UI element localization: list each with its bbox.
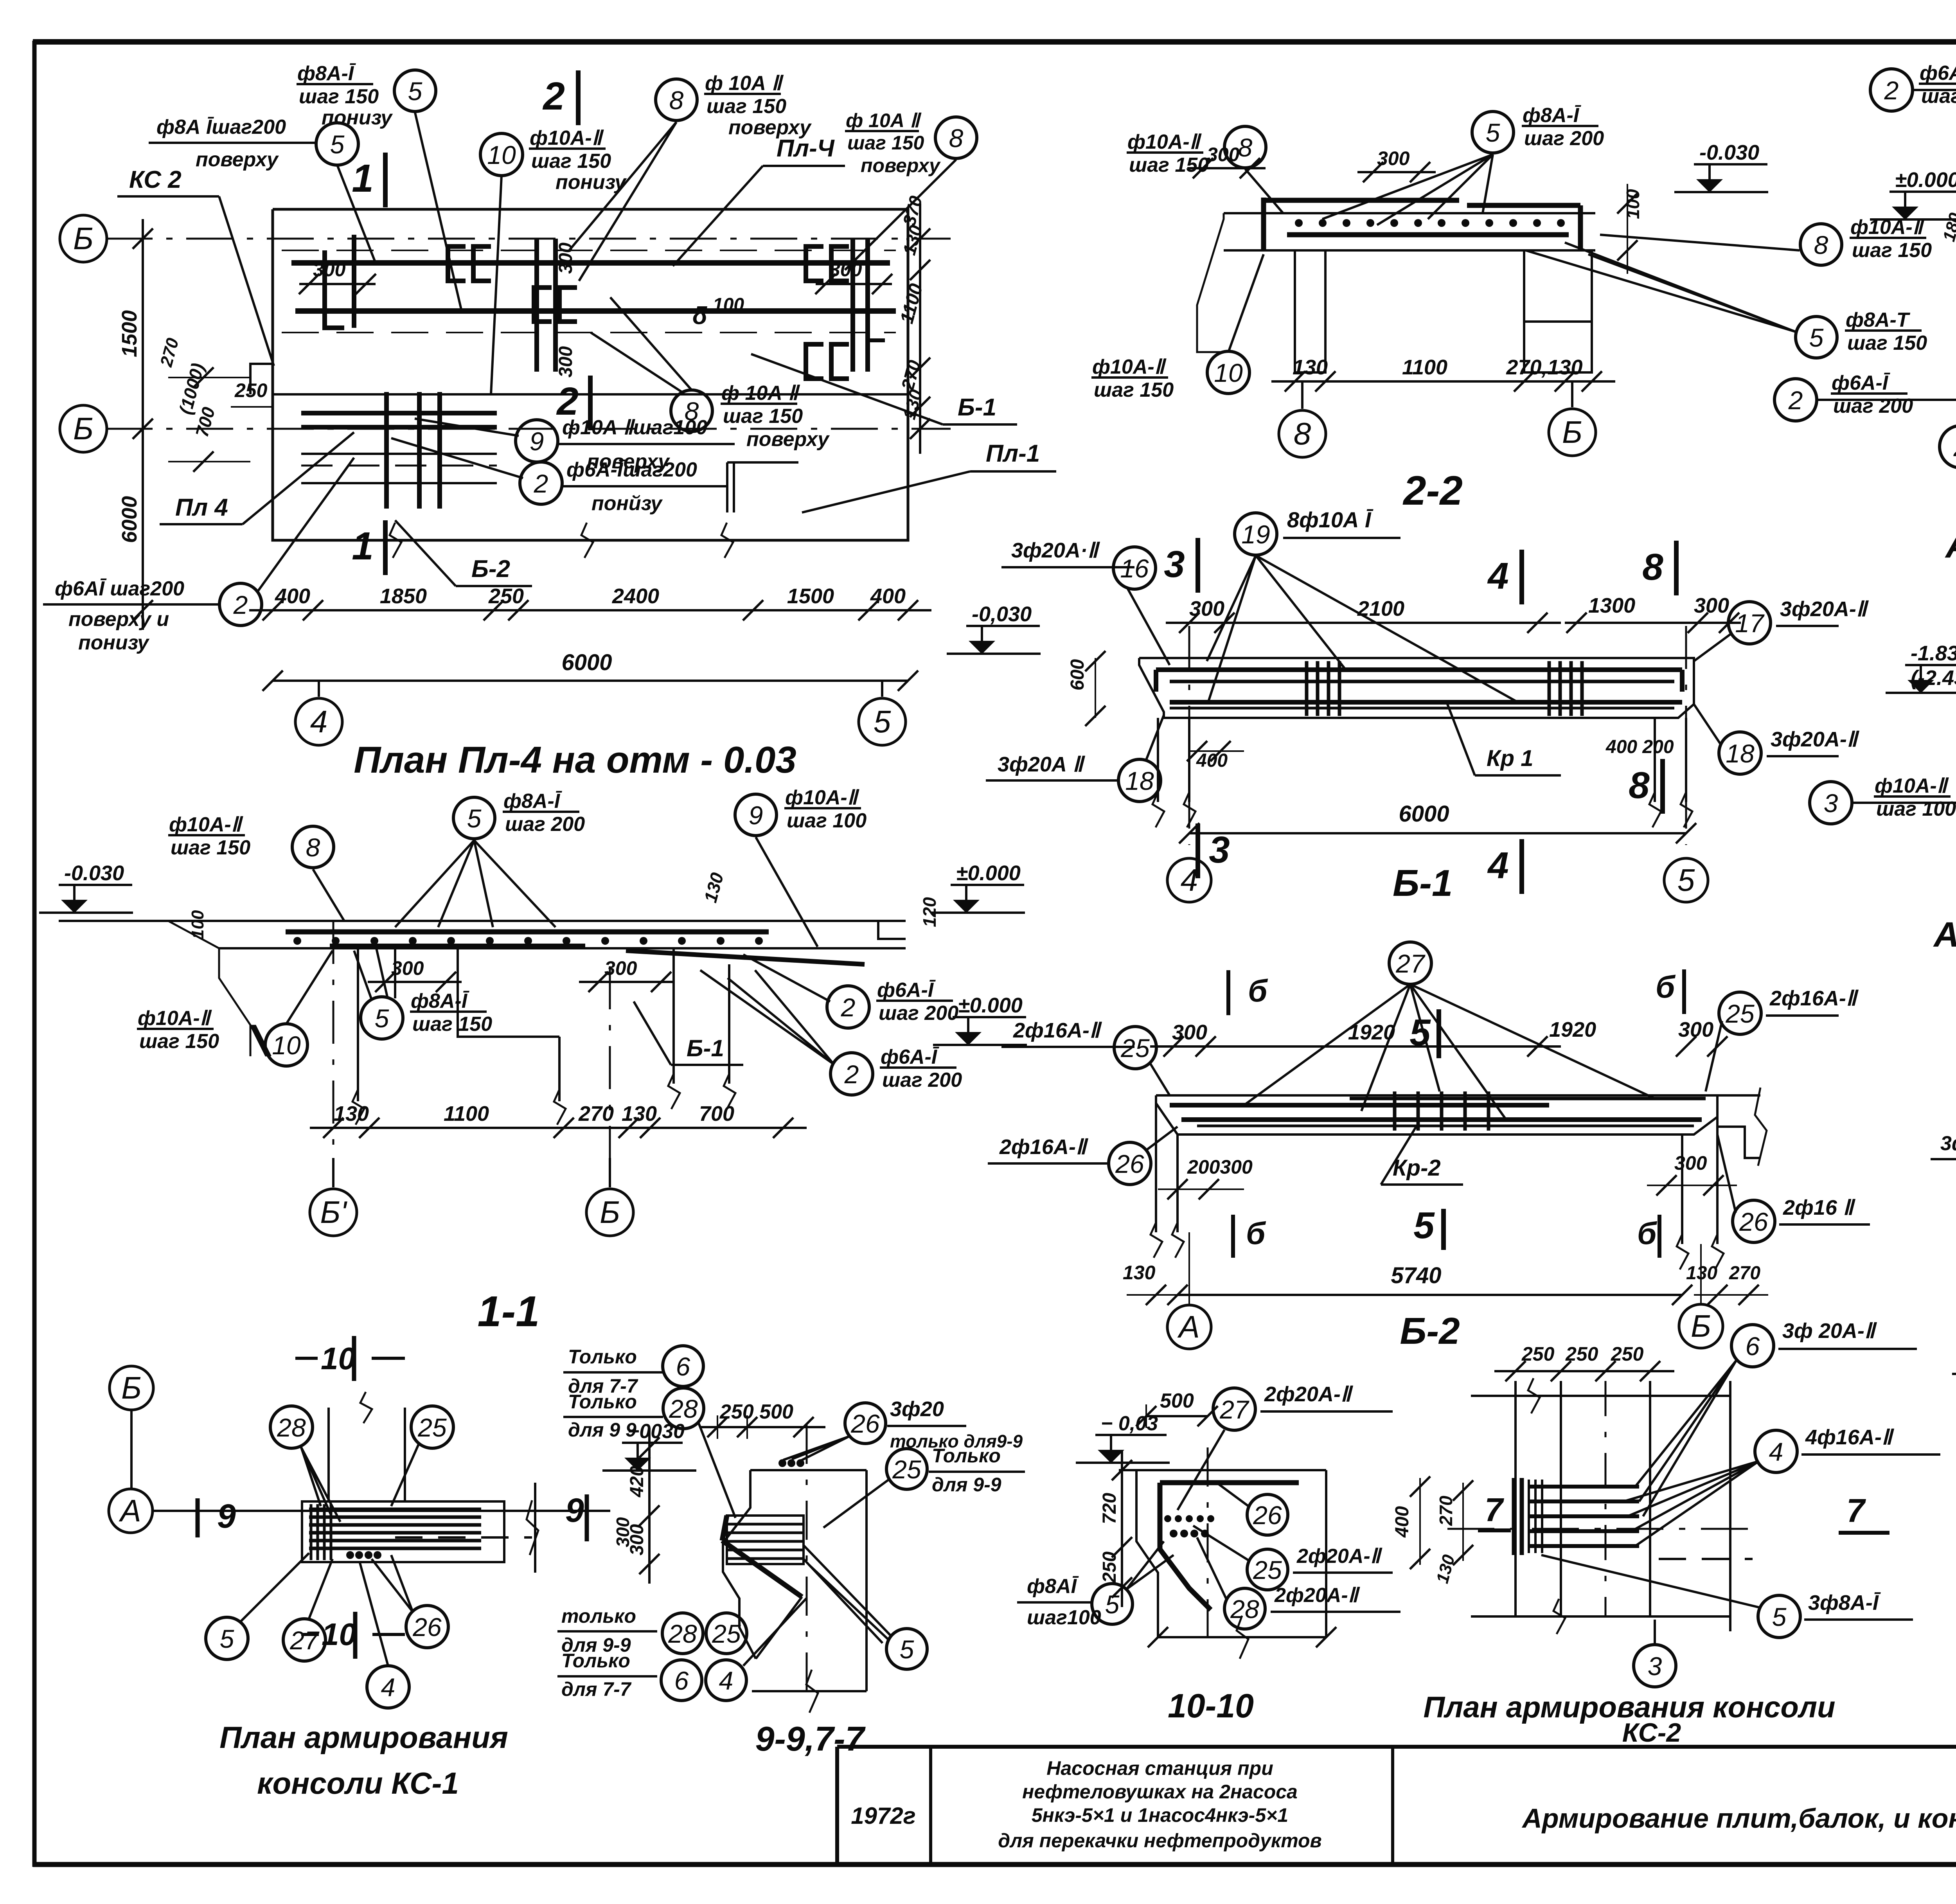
svg-text:28: 28 <box>669 1394 698 1423</box>
KC-1 console left hatch verticals <box>310 1504 313 1560</box>
svg-text:Б: Б <box>1562 415 1582 449</box>
svg-text:26: 26 <box>1115 1149 1144 1178</box>
svg-text:Б': Б' <box>320 1195 347 1230</box>
callout 8 <box>671 390 712 432</box>
svg-text:Пл 4: Пл 4 <box>175 494 228 521</box>
svg-text:3: 3 <box>1209 829 1230 871</box>
svg-text:Пл-Ч: Пл-Ч <box>777 135 835 162</box>
svg-text:400 200: 400 200 <box>1605 737 1674 757</box>
9-9 7-7 diagonal leaders bundle <box>756 1597 802 1659</box>
level mark ±0.000 <box>1889 191 1956 193</box>
section 2-2 left web <box>1295 250 1325 372</box>
svg-text:25: 25 <box>1120 1034 1150 1063</box>
svg-text:δ: δ <box>692 302 707 329</box>
callout 4 <box>706 1660 746 1701</box>
svg-text:б: б <box>1248 973 1268 1008</box>
svg-text:шаг 150: шаг 150 <box>171 836 250 859</box>
section 1-1 slab left support slope <box>168 921 250 1056</box>
callout 5 <box>886 1629 927 1669</box>
svg-text:1-1: 1-1 <box>478 1287 540 1336</box>
svg-text:270: 270 <box>1729 1263 1760 1284</box>
svg-text:б: б <box>1637 1216 1658 1251</box>
svg-text:250: 250 <box>1611 1343 1644 1365</box>
svg-text:А: А <box>1177 1309 1199 1344</box>
section 2-2 top heavy bar right part <box>1467 203 1580 208</box>
callout 3 <box>1810 782 1852 824</box>
svg-text:250: 250 <box>1521 1343 1555 1365</box>
svg-text:для перекачки нефтепродуктов: для перекачки нефтепродуктов <box>998 1830 1322 1852</box>
section mark 2 <box>588 376 593 430</box>
svg-text:27: 27 <box>289 1626 320 1655</box>
svg-text:4: 4 <box>1769 1437 1783 1466</box>
svg-text:1850: 1850 <box>380 584 427 608</box>
beam B-2 left leg <box>1176 1134 1179 1232</box>
svg-text:5: 5 <box>467 804 482 833</box>
svg-text:25: 25 <box>1253 1555 1282 1584</box>
level mark -0,030 <box>966 625 1040 627</box>
callout 18 <box>1719 732 1761 774</box>
svg-text:только: только <box>561 1605 636 1627</box>
callout 26 <box>1109 1142 1151 1185</box>
svg-text:2: 2 <box>1788 386 1803 415</box>
section 1-1 bottom heavy bar <box>330 944 585 948</box>
dimension chain <box>1166 622 1561 624</box>
svg-text:6: 6 <box>674 1666 689 1695</box>
KC-1 console outline <box>302 1501 504 1562</box>
rebar top band bar 1 <box>291 260 890 266</box>
callout 25 <box>411 1406 453 1448</box>
page frame top border <box>33 39 1956 45</box>
section 1-1 left small hatch area <box>250 1025 266 1056</box>
svg-text:Только: Только <box>568 1391 637 1413</box>
section 1-1 axis dashed verticals <box>333 921 334 1178</box>
left vertical rebar with hook <box>325 250 344 328</box>
beam B-2 section mark b top-left <box>1226 970 1230 1015</box>
callout 6 <box>661 1660 702 1701</box>
svg-text:25: 25 <box>712 1619 741 1648</box>
KC-1 console inner heavy bars <box>309 1508 481 1511</box>
callout 10 <box>480 133 523 176</box>
svg-text:3ф20А·Ⅱ: 3ф20А·Ⅱ <box>1011 539 1100 562</box>
svg-text:8: 8 <box>1814 230 1828 259</box>
callout 5 <box>1758 1595 1800 1638</box>
callout 17 <box>1728 602 1771 644</box>
svg-text:ф6АĪ шаг200: ф6АĪ шаг200 <box>55 577 184 600</box>
svg-text:ф 10А Ⅱ: ф 10А Ⅱ <box>705 72 784 95</box>
rebar top band bar 2 <box>295 308 896 314</box>
svg-text:Б-1: Б-1 <box>958 394 996 421</box>
svg-text:26: 26 <box>1253 1501 1282 1530</box>
svg-text:шаг 150: шаг 150 <box>531 150 611 173</box>
callout 28 <box>1224 1588 1265 1629</box>
10-10 Г-shaped heavy bar <box>1160 1480 1299 1485</box>
KC-1 dots under console <box>346 1551 354 1559</box>
vertical dimension chain <box>1121 1451 1123 1607</box>
svg-text:шаг 150: шаг 150 <box>412 1013 492 1036</box>
svg-text:6: 6 <box>1746 1332 1760 1361</box>
svg-text:28: 28 <box>668 1619 697 1648</box>
svg-text:9: 9 <box>749 801 763 830</box>
svg-text:5: 5 <box>1677 863 1695 897</box>
svg-text:поверху: поверху <box>746 428 830 451</box>
svg-text:100: 100 <box>713 295 744 315</box>
KC-1 axis horizontal line <box>153 1510 610 1512</box>
beam B-2 section mark b bottom-right <box>1658 1215 1661 1258</box>
9-9 7-7 console slope thick <box>722 1541 802 1597</box>
svg-text:500: 500 <box>1160 1390 1194 1412</box>
svg-text:300: 300 <box>613 1517 633 1547</box>
svg-text:600: 600 <box>1067 659 1088 690</box>
beam B-1 top second bar <box>1170 680 1674 683</box>
right vertical rebar pair <box>850 239 855 372</box>
section 2-2 slab outline left slope <box>1197 213 1224 352</box>
plan Pl-4 left notch (KC2 console) <box>250 364 273 394</box>
9-9 7-7 left wall outline <box>723 1470 756 1659</box>
10-10 dots cluster <box>1164 1515 1171 1522</box>
svg-text:400: 400 <box>1196 750 1228 771</box>
svg-text:4: 4 <box>381 1673 396 1702</box>
axis 4 <box>295 698 342 745</box>
section 2-2 slab bottom edge <box>1224 249 1595 252</box>
level mark -0.030 <box>59 884 132 886</box>
svg-text:130: 130 <box>622 1102 657 1125</box>
svg-text:25: 25 <box>417 1413 447 1442</box>
svg-text:4: 4 <box>1181 863 1198 897</box>
svg-text:300: 300 <box>1189 597 1224 620</box>
callout 18 <box>1118 759 1161 802</box>
callout 5 <box>1472 111 1514 153</box>
svg-text:2ф16А-Ⅱ: 2ф16А-Ⅱ <box>999 1135 1089 1159</box>
svg-text:2ф20А-Ⅱ: 2ф20А-Ⅱ <box>1274 1584 1361 1607</box>
svg-text:Пл-1: Пл-1 <box>986 440 1040 467</box>
svg-text:300: 300 <box>1172 1021 1207 1044</box>
rebar hooks pair 3 right <box>806 246 823 281</box>
svg-text:18: 18 <box>1125 766 1154 795</box>
callout 28 <box>663 1388 704 1429</box>
beam B-2 section mark 5 top <box>1436 1009 1441 1058</box>
svg-text:шаг 150: шаг 150 <box>1129 154 1209 176</box>
callout 2 <box>1940 426 1956 468</box>
svg-text:3ф 20А-Ⅱ: 3ф 20А-Ⅱ <box>1782 1319 1877 1343</box>
10-10 right vertical line <box>1325 1470 1327 1637</box>
lower-left band thin lines <box>301 453 497 455</box>
svg-text:130: 130 <box>1686 1263 1717 1284</box>
callout 5 <box>316 123 358 165</box>
svg-text:130: 130 <box>1293 356 1328 379</box>
svg-text:250: 250 <box>234 379 268 401</box>
axis Б <box>1549 409 1596 456</box>
svg-text:поверху: поверху <box>196 148 279 171</box>
KC-2 console heavy bars <box>1528 1485 1639 1489</box>
page frame left border <box>32 41 37 1867</box>
callout 27 <box>283 1619 325 1661</box>
svg-text:-0,030: -0,030 <box>972 602 1032 626</box>
svg-text:10: 10 <box>1214 358 1243 387</box>
svg-text:3ф20: 3ф20 <box>890 1397 944 1421</box>
svg-text:понизу: понизу <box>556 171 627 194</box>
callout 25 <box>1114 1027 1156 1069</box>
section mark 4 <box>1519 839 1524 894</box>
svg-text:3ф20АⅡ: 3ф20АⅡ <box>1940 1132 1956 1155</box>
KC-1 section mark 10 top <box>352 1336 356 1381</box>
svg-text:300: 300 <box>1694 594 1729 617</box>
svg-text:26: 26 <box>850 1409 880 1438</box>
svg-text:Только: Только <box>561 1650 630 1672</box>
svg-text:±0.000: ±0.000 <box>1895 168 1956 192</box>
svg-text:3: 3 <box>1824 789 1838 818</box>
svg-text:3ф20А-Ⅱ: 3ф20А-Ⅱ <box>1780 597 1869 621</box>
KC-1 right break <box>527 1500 538 1555</box>
svg-text:Кр 1: Кр 1 <box>1487 746 1533 771</box>
callout 10 <box>265 1024 307 1066</box>
section 1-1 slab bottom edge <box>219 947 906 949</box>
svg-text:шаг 150: шаг 150 <box>723 405 803 428</box>
svg-text:1100: 1100 <box>444 1102 489 1125</box>
beam B-2 dim 5740 <box>1178 1294 1682 1296</box>
svg-text:±0.000: ±0.000 <box>958 994 1023 1017</box>
svg-text:Б-2: Б-2 <box>471 556 510 583</box>
9-9 7-7 top dims 250 500 <box>700 1426 825 1428</box>
svg-text:8: 8 <box>306 833 320 862</box>
svg-text:19: 19 <box>1241 520 1270 549</box>
section 2-2 dim 300 right <box>1357 171 1436 173</box>
section 2-2 slab bottom heavy bar <box>1287 232 1569 237</box>
KC-2 grid horizontal bottom <box>1471 1615 1729 1618</box>
level mark − 0,03 <box>1095 1434 1167 1436</box>
svg-text:25: 25 <box>1725 999 1755 1028</box>
svg-text:шаг 200: шаг 200 <box>1833 395 1913 417</box>
axis line B lower dashed <box>106 428 951 430</box>
svg-text:3: 3 <box>1648 1652 1662 1681</box>
svg-text:5: 5 <box>1105 1590 1120 1619</box>
callout 4 <box>367 1666 409 1708</box>
callout 2 <box>1774 379 1817 421</box>
svg-text:шаг 150: шаг 150 <box>847 132 924 154</box>
svg-text:100: 100 <box>188 910 207 939</box>
svg-text:5740: 5740 <box>1391 1263 1441 1288</box>
axis Б <box>60 215 107 262</box>
svg-text:б: б <box>1656 969 1676 1004</box>
svg-text:ф10А-Ⅱ: ф10А-Ⅱ <box>785 786 860 809</box>
svg-text:понизу: понизу <box>78 631 150 654</box>
svg-text:8ф10А Ī: 8ф10А Ī <box>1287 507 1374 532</box>
svg-text:б: б <box>1246 1216 1266 1251</box>
beam B-1 top heavy bar <box>1156 667 1682 672</box>
10-10 top horizontal line <box>1119 1469 1326 1471</box>
svg-text:Б: Б <box>73 411 93 446</box>
svg-text:9-9,7-7: 9-9,7-7 <box>755 1719 866 1758</box>
svg-text:400: 400 <box>1392 1506 1413 1538</box>
beam B-1 left hook <box>1154 670 1158 692</box>
svg-text:шаг 150: шаг 150 <box>1094 379 1174 401</box>
svg-text:Только: Только <box>932 1445 1001 1467</box>
svg-text:10-10: 10-10 <box>1168 1687 1254 1725</box>
beam B-1 6000 dim <box>1189 832 1686 834</box>
svg-text:27: 27 <box>1395 949 1426 978</box>
svg-text:3: 3 <box>1164 543 1185 585</box>
svg-text:2ф16 Ⅱ: 2ф16 Ⅱ <box>1783 1196 1856 1219</box>
callout 25 <box>886 1449 927 1489</box>
beam B-2 right slab stub <box>1717 1094 1760 1097</box>
svg-text:для 7-7: для 7-7 <box>561 1678 632 1700</box>
svg-text:5: 5 <box>1486 118 1500 147</box>
svg-text:8: 8 <box>1238 133 1253 162</box>
callout 9 <box>516 420 558 462</box>
svg-text:130: 130 <box>334 1102 369 1125</box>
svg-text:2400: 2400 <box>612 584 659 608</box>
svg-text:Армирование Пл-1, Пл-2: Армирование Пл-1, Пл-2 <box>1945 525 1956 565</box>
callout 2 <box>219 583 262 626</box>
10-10 dim 500 top <box>1146 1415 1208 1417</box>
callout 10 <box>1207 351 1249 394</box>
axis 5 <box>1664 858 1708 902</box>
callout 8 <box>1224 126 1266 168</box>
10-10 vertical dashed center <box>1207 1447 1209 1637</box>
svg-text:шаг 200: шаг 200 <box>879 1002 958 1025</box>
level mark -0.030 <box>1694 163 1767 165</box>
svg-text:ф8АĪ: ф8АĪ <box>1027 1575 1079 1598</box>
9-9 7-7 top dots <box>778 1459 786 1467</box>
svg-text:А: А <box>119 1493 141 1528</box>
callout 26 <box>406 1606 448 1648</box>
svg-text:1500: 1500 <box>787 584 834 608</box>
svg-text:для 9-9: для 9-9 <box>932 1474 1001 1496</box>
svg-text:понйзу: понйзу <box>591 492 663 515</box>
section 2-2 dim 300 left <box>1187 167 1266 169</box>
svg-text:поверху: поверху <box>728 116 812 139</box>
KC-2 dashed right continuation <box>1659 1558 1753 1560</box>
svg-text:2ф16А-Ⅱ: 2ф16А-Ⅱ <box>1769 987 1859 1010</box>
callout 26 <box>845 1403 886 1444</box>
svg-text:300: 300 <box>1377 147 1410 169</box>
svg-text:Б: Б <box>1691 1309 1711 1343</box>
callout 8 <box>1800 224 1842 265</box>
svg-text:2ф16А-Ⅱ: 2ф16А-Ⅱ <box>1013 1019 1102 1042</box>
svg-text:28: 28 <box>1230 1595 1259 1624</box>
level mark ±0.000 <box>953 1016 1026 1018</box>
callout 28 <box>270 1406 313 1448</box>
svg-text:4: 4 <box>1487 555 1508 597</box>
svg-text:6000: 6000 <box>118 496 141 543</box>
beam B-1 left support legs <box>1157 718 1159 802</box>
svg-text:18: 18 <box>1726 739 1755 768</box>
beam B-2 section mark b bottom-left <box>1231 1215 1235 1258</box>
10-10 left outline <box>1136 1470 1158 1637</box>
beam B-1 body outline <box>1139 658 1694 661</box>
svg-text:8: 8 <box>1642 546 1663 588</box>
svg-text:9: 9 <box>530 427 544 456</box>
svg-text:шаг 200: шаг 200 <box>1524 127 1604 150</box>
beam B-2 top heavy bar right part <box>1350 1097 1706 1100</box>
callout 27 <box>1389 942 1431 984</box>
svg-text:Армирование плит,балок, и конс: Армирование плит,балок, и консолей <box>1521 1803 1956 1834</box>
svg-text:10: 10 <box>322 1617 356 1652</box>
KC-2 grid vertical right <box>1729 1381 1731 1631</box>
callout 8 <box>292 826 334 868</box>
300 dim top-left of plan <box>299 283 376 285</box>
svg-text:26: 26 <box>412 1613 442 1642</box>
svg-text:ф10А-Ⅱ: ф10А-Ⅱ <box>1127 131 1202 153</box>
beam B-1 stirrup group mid-left <box>1305 661 1309 716</box>
svg-text:шаг 150: шаг 150 <box>1852 239 1932 262</box>
svg-text:1300: 1300 <box>1588 594 1635 617</box>
svg-text:5: 5 <box>900 1635 914 1664</box>
svg-text:ф8А-Т: ф8А-Т <box>1846 309 1911 331</box>
svg-text:-0.030: -0.030 <box>64 861 124 885</box>
svg-text:2: 2 <box>844 1060 859 1089</box>
svg-text:3ф8А-Ī: 3ф8А-Ī <box>1808 1591 1881 1615</box>
plan Pl-4 outline <box>273 209 908 540</box>
plan Pl-4 mid horizontal edge <box>273 393 908 396</box>
svg-text:ф8А-Ī: ф8А-Ī <box>411 990 470 1012</box>
callout 19 <box>1235 513 1277 555</box>
svg-text:поверху и: поверху и <box>68 608 169 631</box>
callout 8 <box>656 79 697 120</box>
title block outline <box>837 1745 1956 1749</box>
svg-text:− 0,03: − 0,03 <box>1101 1412 1158 1435</box>
vertical dimension chain <box>648 1428 651 1584</box>
lower-left band rebar bars <box>301 411 497 415</box>
rebar hooks pair 1 <box>448 246 466 281</box>
svg-text:поверху: поверху <box>861 155 941 176</box>
rebar hooks pair 2 <box>534 288 552 322</box>
svg-text:ф 10А Ⅱ: ф 10А Ⅱ <box>846 110 922 131</box>
vertical dimension chain <box>142 219 144 630</box>
svg-text:8: 8 <box>949 124 964 153</box>
svg-text:ф8А-Ī: ф8А-Ī <box>1523 104 1582 127</box>
svg-text:6: 6 <box>676 1352 690 1381</box>
svg-text:1920: 1920 <box>1549 1018 1596 1041</box>
svg-text:ф10А-Ⅱ: ф10А-Ⅱ <box>530 127 604 149</box>
svg-text:-0.030: -0.030 <box>1699 141 1759 164</box>
beam B-1 stirrup group mid-right <box>1548 661 1551 716</box>
Pl-1 notch step <box>727 461 798 464</box>
svg-text:шаг100: шаг100 <box>1027 1606 1101 1629</box>
svg-text:ф 10А Ⅱ: ф 10А Ⅱ <box>721 382 800 405</box>
axis 8 <box>1279 410 1326 457</box>
9-9 7-7 outline right edge <box>865 1470 868 1691</box>
9-9 7-7 console hatched band <box>727 1516 804 1564</box>
svg-text:1972г: 1972г <box>851 1803 916 1829</box>
svg-text:ф10А-Ⅱ: ф10А-Ⅱ <box>1092 356 1167 378</box>
svg-text:5: 5 <box>874 704 891 739</box>
svg-text:шаг 150: шаг 150 <box>139 1030 219 1053</box>
callout 25 <box>1247 1549 1288 1590</box>
svg-text:ф10А-Ⅱ: ф10А-Ⅱ <box>138 1007 212 1030</box>
beam B-1 right support legs <box>1654 718 1656 802</box>
callout 27 <box>1213 1388 1255 1430</box>
beam B-2 bottom heavy bar <box>1181 1117 1702 1122</box>
svg-text:5: 5 <box>1809 323 1824 352</box>
svg-text:250: 250 <box>1099 1552 1120 1583</box>
svg-text:Кр-2: Кр-2 <box>1393 1155 1441 1181</box>
svg-text:250 500: 250 500 <box>719 1401 793 1423</box>
svg-text:ф6А-Ī: ф6А-Ī <box>881 1046 940 1068</box>
beam B-1 dashed axes verticals <box>1188 626 1190 845</box>
dimension chain <box>1150 1045 1561 1048</box>
10-10 bottom dim line <box>1158 1636 1326 1638</box>
level mark ±0.000 <box>951 884 1024 886</box>
section mark 2 <box>576 70 581 125</box>
9-9 7-7 outline top edge <box>750 1469 867 1471</box>
svg-text:700: 700 <box>699 1102 734 1125</box>
svg-text:2: 2 <box>233 590 248 619</box>
callout 6 <box>663 1346 703 1386</box>
section mark 8 <box>1674 541 1679 595</box>
svg-text:17: 17 <box>1735 609 1765 638</box>
rebar hooks pair 4 right lower <box>806 344 823 379</box>
svg-text:5: 5 <box>375 1004 389 1033</box>
